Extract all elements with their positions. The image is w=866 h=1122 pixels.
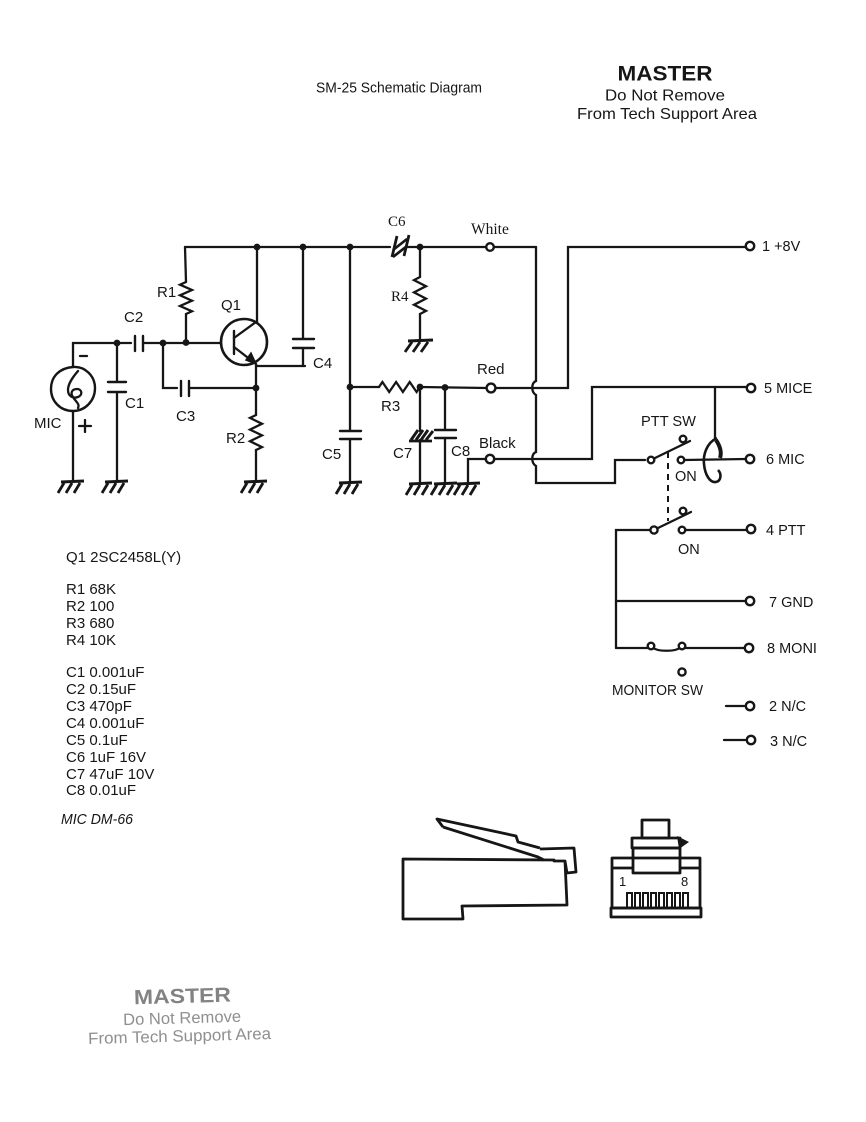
- resistor R3: [379, 382, 420, 392]
- wire: pole2 to 4 PTT: [685, 529, 746, 531]
- ground (MIC): [58, 481, 84, 493]
- wire: 8 MONI line: [616, 647, 746, 649]
- capacitor C6 (series, polarized): [392, 235, 409, 257]
- svg-text:C7: C7: [393, 445, 412, 462]
- svg-text:C4: C4: [313, 355, 332, 372]
- label: MIC minus: [80, 355, 87, 357]
- svg-text:C3 470pF: C3 470pF: [66, 698, 132, 715]
- wire: rail to C5/R3 node: [349, 247, 351, 387]
- svg-text:3 N/C: 3 N/C: [770, 734, 807, 750]
- svg-text:7 GND: 7 GND: [769, 595, 813, 611]
- svg-text:White: White: [471, 221, 509, 238]
- node: White connector: [486, 243, 494, 251]
- wire: C1 node to C2: [117, 342, 131, 344]
- stamp header MASTER: [577, 62, 757, 124]
- svg-text:R3 680: R3 680: [66, 615, 114, 632]
- cable loop on 6 MIC lead: [704, 387, 721, 482]
- svg-text:C2 0.15uF: C2 0.15uF: [66, 681, 136, 698]
- node: Black connector: [486, 455, 494, 463]
- node: C8 junction: [442, 384, 449, 391]
- svg-text:6 MIC: 6 MIC: [766, 452, 805, 468]
- wire: +8V feed from Red up and right to pin 1: [568, 247, 746, 388]
- svg-text:C1 0.001uF: C1 0.001uF: [66, 664, 144, 681]
- svg-text:1: 1: [619, 874, 626, 889]
- ground (R4): [405, 340, 433, 352]
- svg-text:R2: R2: [226, 430, 245, 447]
- svg-text:C1: C1: [125, 395, 144, 412]
- resistor R1: [180, 282, 192, 314]
- wire: rail left drop to R1: [185, 247, 186, 282]
- wire: pin 3 stub: [724, 739, 745, 741]
- capacitor C1: [108, 343, 126, 480]
- svg-text:C5: C5: [322, 446, 341, 463]
- capacitor C8: [435, 387, 456, 482]
- svg-text:Q1 2SC2458L(Y): Q1 2SC2458L(Y): [66, 549, 181, 566]
- svg-text:MIC DM-66: MIC DM-66: [61, 811, 134, 828]
- wire: emitter node and link to C4: [256, 364, 305, 388]
- capacitor C3 (series): [181, 381, 189, 396]
- wire: pole2 common to GND bus: [616, 530, 650, 648]
- svg-text:Black: Black: [479, 435, 516, 452]
- svg-text:R4: R4: [391, 289, 409, 305]
- capacitor C4: [293, 247, 314, 366]
- resistor R2: [250, 415, 262, 450]
- wire: C2 to base: [143, 342, 221, 344]
- wire: collector drop from rail: [256, 247, 258, 322]
- pin 7 terminal: [746, 597, 754, 605]
- wire: pole1 to 6 MIC: [684, 459, 746, 460]
- resistor R4: [414, 277, 426, 314]
- pin 1 terminal: [746, 242, 754, 250]
- wire: R1 bottom to base node: [185, 314, 187, 342]
- svg-text:C5 0.1uF: C5 0.1uF: [66, 732, 128, 749]
- wire: R4 to ground: [419, 314, 421, 339]
- wire: white line down (line A) with crossover jogs: [532, 247, 645, 483]
- drawing: jack pin row: [627, 893, 688, 908]
- svg-text:C6: C6: [388, 214, 406, 230]
- node: Red connector: [487, 384, 496, 393]
- svg-text:C8 0.01uF: C8 0.01uF: [66, 782, 136, 799]
- pin 4 terminal: [747, 525, 755, 533]
- svg-text:Do Not Remove: Do Not Remove: [605, 88, 725, 105]
- svg-text:MIC: MIC: [34, 415, 62, 432]
- svg-text:R1 68K: R1 68K: [66, 581, 116, 598]
- svg-text:SM-25 Schematic Diagram: SM-25 Schematic Diagram: [316, 81, 482, 97]
- node: C4 junction on rail: [300, 244, 307, 251]
- node: collector junction on rail: [254, 244, 261, 251]
- svg-text:MONITOR SW: MONITOR SW: [612, 683, 703, 699]
- svg-text:C8: C8: [451, 443, 470, 460]
- pin 5 terminal: [747, 384, 755, 392]
- wire: Red to +8V riser: [496, 387, 568, 389]
- wire: MIC top to C1 node: [73, 343, 117, 367]
- svg-text:C4 0.001uF: C4 0.001uF: [66, 715, 144, 732]
- svg-text:R1: R1: [157, 284, 176, 301]
- svg-text:MASTER: MASTER: [618, 62, 713, 86]
- wire: node to R3: [350, 386, 379, 388]
- wire: Black right to 5 MICE riser: [494, 387, 746, 459]
- svg-text:ON: ON: [678, 542, 700, 558]
- ground (C1): [102, 481, 128, 493]
- switch MONITOR SW: [648, 643, 686, 676]
- wire: MIC bottom to ground: [72, 411, 74, 480]
- ground (R2): [241, 481, 267, 493]
- wire: R4 drop: [419, 247, 421, 277]
- pin 2 terminal: [746, 702, 754, 710]
- wire: R3 node to Red: [420, 387, 487, 388]
- svg-text:Red: Red: [477, 361, 505, 378]
- svg-text:R3: R3: [381, 398, 400, 415]
- ground (C8): [431, 483, 457, 495]
- node: C1 junction: [114, 340, 121, 347]
- pin 8 terminal: [745, 644, 753, 652]
- wire: C3 branch down: [163, 343, 177, 388]
- node: R3/C7 junction: [417, 384, 424, 391]
- svg-text:2 N/C: 2 N/C: [769, 699, 806, 715]
- svg-text:C2: C2: [124, 309, 143, 326]
- ground (Black): [454, 483, 480, 495]
- svg-text:C6 1uF 16V: C6 1uF 16V: [66, 749, 146, 766]
- node: emitter/R2/C3 junction: [253, 385, 260, 392]
- svg-text:C7 47uF 10V: C7 47uF 10V: [66, 766, 154, 783]
- svg-text:8 MONI: 8 MONI: [767, 641, 817, 657]
- capacitor C5: [340, 387, 361, 481]
- svg-text:5 MICE: 5 MICE: [764, 381, 813, 397]
- svg-text:From Tech Support Area: From Tech Support Area: [88, 1025, 272, 1048]
- node: R4 junction after C6: [417, 244, 424, 251]
- capacitor C7 (polarized): [409, 387, 433, 482]
- node: base junction (R1): [183, 339, 190, 346]
- ground (C7): [406, 483, 432, 495]
- svg-text:C3: C3: [176, 408, 195, 425]
- drawing: RJ45 jack front view: [611, 820, 701, 917]
- node: C5/R3 junction: [347, 384, 354, 391]
- svg-text:From Tech Support Area: From Tech Support Area: [577, 106, 757, 123]
- svg-text:8: 8: [681, 874, 688, 889]
- svg-text:1 +8V: 1 +8V: [762, 239, 801, 255]
- node: C3 branch junction: [160, 340, 167, 347]
- wire: pin 2 stub: [726, 705, 744, 707]
- transistor Q1: [221, 319, 267, 365]
- pin 6 terminal: [746, 455, 754, 463]
- wire: C3 to emitter node: [189, 387, 256, 389]
- drawing: RJ45 plug side view: [403, 819, 576, 919]
- switch PTT pole 1: [648, 436, 690, 464]
- wire: dashed gang link: [667, 452, 669, 521]
- wire: Black left to ground: [468, 459, 486, 482]
- parts list: [61, 549, 181, 828]
- switch PTT pole 2: [650, 508, 691, 534]
- microphone MIC: [51, 367, 95, 411]
- wire: top +8V/collector rail: [185, 246, 536, 248]
- svg-text:Q1: Q1: [221, 297, 241, 314]
- pin 3 terminal: [747, 736, 755, 744]
- wire: R2 to ground: [255, 450, 257, 480]
- wire: 7 GND line: [616, 600, 746, 602]
- svg-text:R4 10K: R4 10K: [66, 632, 116, 649]
- capacitor C2 (series): [135, 336, 143, 351]
- node: C5 branch junction on rail: [347, 244, 354, 251]
- svg-text:PTT SW: PTT SW: [641, 414, 696, 430]
- svg-text:4 PTT: 4 PTT: [766, 523, 806, 539]
- svg-text:MASTER: MASTER: [134, 984, 232, 1010]
- label: MIC plus: [79, 420, 91, 432]
- svg-text:ON: ON: [675, 469, 697, 485]
- svg-text:R2 100: R2 100: [66, 598, 114, 615]
- ground (C5): [336, 482, 362, 494]
- wire: node to R2: [255, 388, 257, 415]
- stamp footer MASTER (faded): [87, 982, 272, 1048]
